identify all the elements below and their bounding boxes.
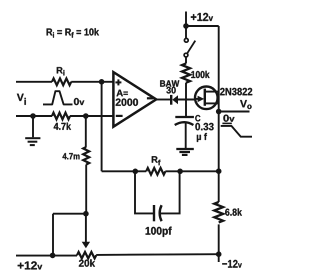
wire top input left segment (16, 81, 52, 83)
label 4.7k (54, 123, 71, 130)
label uf (197, 133, 207, 142)
label C (195, 115, 200, 121)
label Ri (57, 67, 65, 75)
resistor R4 (6.8k) zigzag (214, 202, 223, 222)
op-amp label A = (117, 90, 128, 97)
label +12v top (191, 13, 213, 21)
label 0v output (223, 115, 234, 122)
node junction plus input (99, 79, 105, 85)
transistor Q1 drain lead (205, 91, 219, 93)
label 0.33 (195, 123, 213, 130)
wire top corner to right rail (186, 25, 219, 27)
wire +12v top stub (185, 12, 187, 27)
resistor R2 (4.7k) zigzag (52, 113, 70, 120)
resistor R5 (Rf) zigzag (146, 168, 165, 175)
label Vi (17, 94, 26, 105)
node 100pf right (177, 169, 183, 175)
wire bottom rail left (16, 255, 77, 257)
wire switch to 100k (185, 57, 187, 63)
wire diode to gate (178, 99, 195, 101)
wire bottom input right segment (70, 115, 114, 117)
wire right rail upper (218, 26, 220, 202)
node bottom left junction (50, 253, 56, 259)
label 100pf (146, 227, 172, 237)
waveform output step (221, 126, 252, 137)
transistor Q1 source lead (205, 102, 219, 104)
wire to switch (185, 26, 187, 38)
label 2N3822 (220, 88, 252, 95)
wiper arrow head (82, 242, 90, 249)
wire 100pf right branch (160, 171, 179, 213)
wiper arrow shaft (85, 214, 87, 243)
wire feedback line right (165, 170, 218, 172)
op-amp plus sign (115, 81, 121, 83)
op-amp label 2000 (116, 99, 138, 106)
label +12v bottom (18, 261, 43, 269)
wire cap to ground (185, 123, 187, 149)
wire right rail lower (218, 224, 220, 262)
wire 100k to cap C (185, 83, 187, 116)
label Ri = Rf = 10k (47, 28, 99, 37)
node Vo junction (216, 109, 222, 115)
label Rf (152, 156, 161, 165)
wire 4.7m upper (85, 116, 87, 147)
capacitor C curved plate (175, 122, 194, 125)
capacitor C top plate (175, 116, 194, 118)
node 100pf left (133, 169, 139, 175)
wire wiper connect horizontal (53, 213, 86, 215)
label Vo (240, 100, 252, 109)
node -12v junction (216, 251, 222, 257)
ground G2 (176, 149, 194, 155)
label 100k (191, 71, 209, 78)
wire op-amp output to diode (156, 99, 170, 101)
label -12v (222, 260, 242, 268)
capacitor C2 100pf curved plate (160, 205, 162, 221)
label 4.7m (63, 153, 80, 159)
capacitor C2 100pf left plate (153, 205, 155, 221)
wire wiper connect vertical (52, 214, 54, 256)
resistor R6 (4.7m) zigzag (83, 147, 89, 164)
wire ground stem (32, 116, 34, 137)
diode D1 BAW30 cathode bar (170, 95, 172, 105)
transistor Q1 gate arrow (198, 96, 205, 102)
label 6.8k (225, 208, 242, 215)
wire bottom input left segment (16, 115, 52, 117)
potentiometer 20k zigzag (77, 252, 96, 258)
op-amp minus input dash (116, 115, 123, 117)
wire feedback vertical (101, 82, 103, 172)
node wiper junction (83, 211, 89, 217)
switch S1 lever (187, 41, 195, 54)
op-amp U1 (113, 72, 156, 127)
wire 4.7m lower (85, 165, 87, 214)
op-amp minus output dash (147, 97, 153, 99)
wire bottom rail right (96, 253, 219, 256)
label 30 (166, 87, 175, 94)
label 0v input (74, 98, 84, 105)
node 4.7m branch (83, 113, 89, 119)
node ground branch (30, 113, 36, 119)
transistor Q1 gate lead (195, 98, 199, 100)
diode D1 triangle (172, 95, 178, 104)
wire 100pf left branch (135, 171, 153, 213)
switch S1 bottom contact (184, 53, 188, 57)
0v underline (222, 122, 231, 124)
transistor Q1 channel bar (204, 89, 206, 106)
wire top input right segment (71, 81, 113, 83)
waveform input pulse (43, 91, 73, 104)
wire Vo output (219, 111, 250, 113)
resistor R3 (100k) zigzag (182, 64, 190, 83)
switch S1 top contact (184, 38, 188, 42)
node feedback right junction (216, 168, 222, 174)
label 20k (79, 259, 95, 266)
node +12v junction (183, 23, 189, 29)
label BAW (160, 80, 179, 86)
wire feedback line left (102, 170, 147, 172)
ground G1 (25, 138, 40, 145)
resistor R1 (Ri) zigzag (52, 78, 71, 85)
transistor Q1 2N3822 circle (195, 87, 218, 110)
